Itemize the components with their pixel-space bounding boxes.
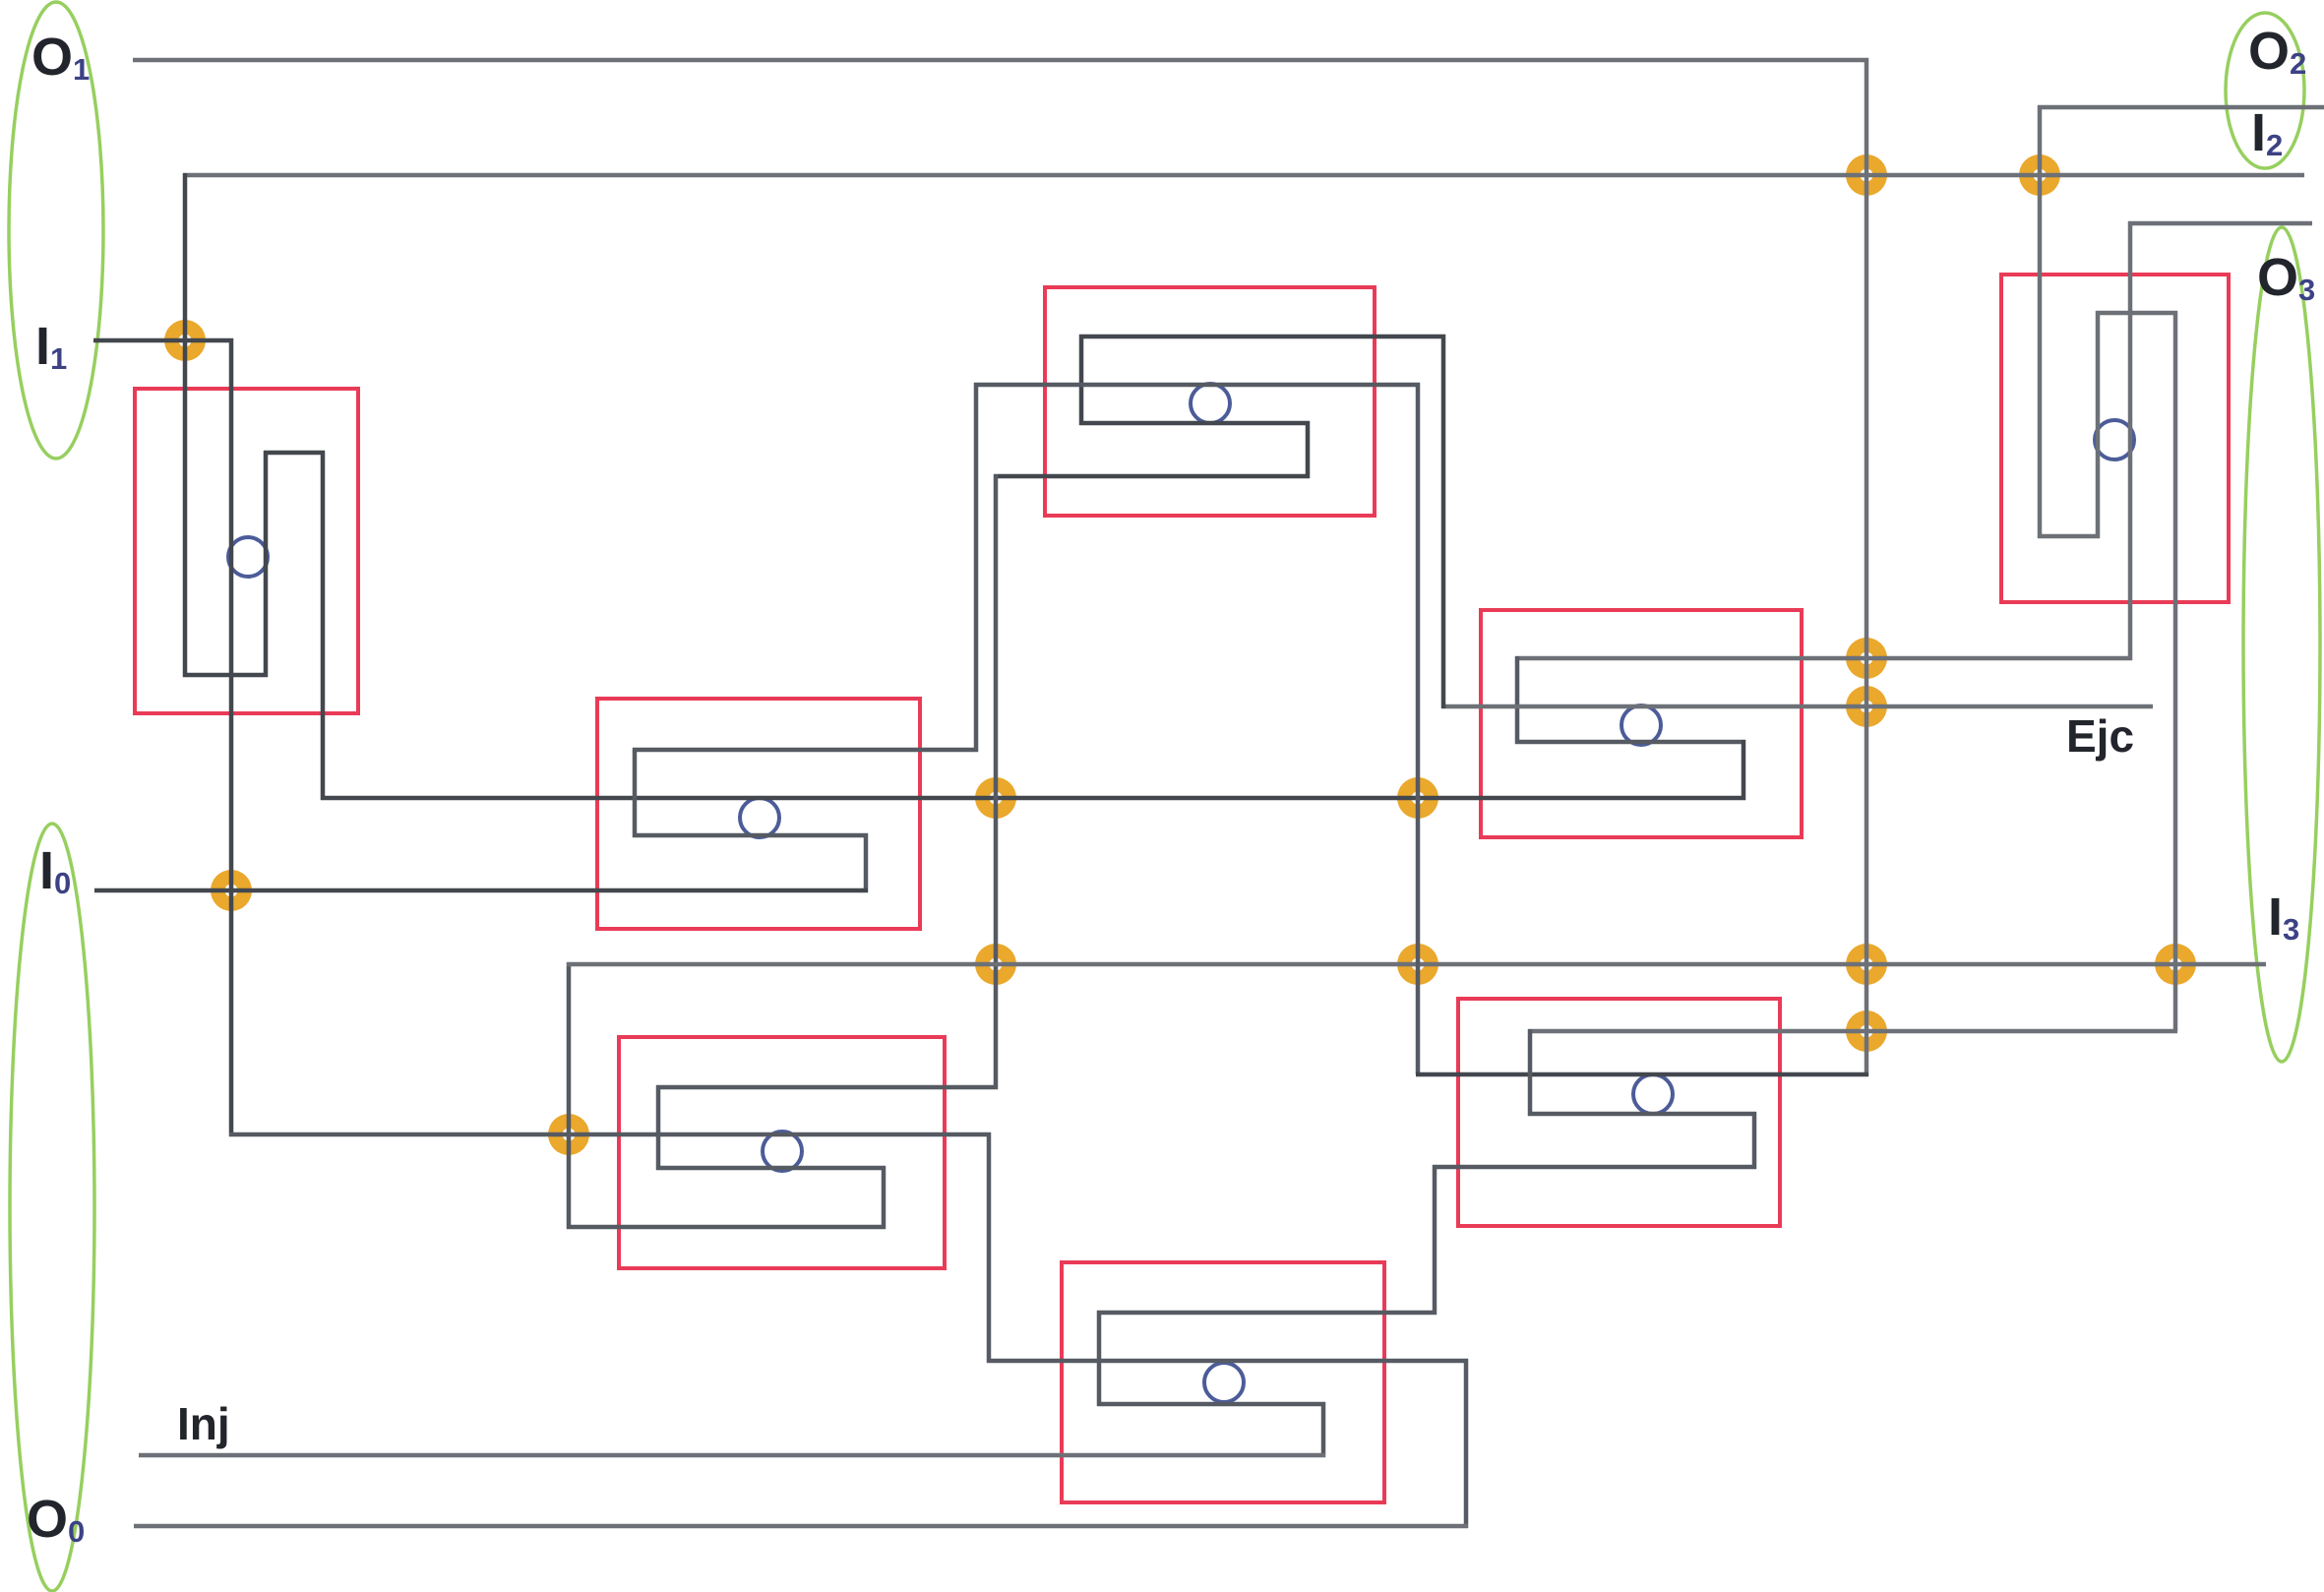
junction dot J8 (I3 line x1441)	[1397, 944, 1438, 985]
wire SW7 serpentine top y1048	[1528, 1029, 2177, 1034]
wire long vertical x1012	[994, 474, 999, 1089]
ring resonator SW6	[763, 1132, 802, 1171]
switch box SW6 (bottom left)	[619, 1037, 945, 1268]
wire SW6 serpentine top y1105	[656, 1085, 998, 1090]
ellipse group input/output port 1 (O1,I1)	[9, 2, 103, 459]
wire O2 horizontal	[2038, 105, 2324, 110]
ellipse group input/output port 3 (O3,I3)	[2243, 227, 2320, 1062]
switch box SW4 (middle right)	[1481, 610, 1802, 837]
wire SW8 serpentine right vertical x1345	[1321, 1402, 1326, 1457]
wire SW7 through line y1092	[1416, 1072, 1868, 1077]
wire SW6 serpentine bottom y1247	[567, 1225, 886, 1230]
wire I3 feeder vertical x578	[567, 962, 572, 1229]
wire O2 vertical drop x2073	[2038, 105, 2043, 538]
wire I2 vertical x188	[183, 173, 188, 677]
wire Inj horizontal y1479	[139, 1453, 1325, 1458]
wire SW2 serpentine top y342	[1079, 335, 1445, 339]
wire SW5 output vertical x2211	[2173, 311, 2178, 1031]
wire SW3 serpentine top y762	[633, 748, 978, 753]
wire O3 vertical x2165 through SW5	[2128, 221, 2133, 660]
wire SW7 serpentine middle y1132	[1528, 1112, 1756, 1117]
wire SW7 serpentine left vertical x1555	[1528, 1029, 1533, 1116]
wire O1 vertical drop x1897	[1865, 58, 1869, 1076]
ring resonator SW4	[1621, 705, 1661, 745]
junction dot J1 (I2 x O1-vertical)	[1846, 154, 1887, 196]
wire I1 horizontal y346	[93, 338, 233, 343]
switch box SW3 (middle left)	[597, 699, 920, 929]
wire SW2 serpentine middle y430	[1079, 421, 1310, 426]
junction dot J2 (I2 x O2-vertical)	[2019, 154, 2060, 196]
wire SW8 serpentine middle y1427	[1097, 1402, 1325, 1407]
svg-text:Inj: Inj	[177, 1398, 230, 1449]
wire SW2 serpentine left vertical x1099	[1079, 335, 1084, 425]
wire SW3 serpentine left vertical x645	[633, 748, 638, 837]
wire vertical x1005	[987, 1133, 992, 1363]
wire SW2 serpentine bottom y484	[994, 474, 1310, 479]
wire I3 horizontal y980	[567, 962, 2266, 967]
wire SW4 serpentine right vertical x1772	[1742, 740, 1746, 800]
wire vertical x1441	[1416, 383, 1421, 1074]
switch box SW1 (left vertical)	[135, 389, 358, 713]
wire SW2 through line y391	[974, 383, 1420, 388]
wire O3 horizontal	[2128, 221, 2312, 226]
wire I2 horizontal	[183, 173, 2304, 178]
junction dot J5 (mid line x1012)	[975, 777, 1016, 819]
wire O0 vertical x1490	[1464, 1359, 1469, 1528]
switch box SW7 (bottom right)	[1458, 999, 1780, 1226]
wire O0 horizontal y1551	[134, 1524, 1468, 1529]
wire I0 horizontal y905	[94, 888, 868, 893]
wire SW4 serpentine middle y754	[1515, 740, 1745, 745]
wire SW6 serpentine left vertical x669	[656, 1085, 661, 1170]
ring resonator SW1	[228, 537, 268, 577]
wire SW8 through line y1383	[987, 1359, 1468, 1364]
junction dot J7 (I3 line x1012)	[975, 944, 1016, 985]
junction dot J12 (I3 x O2-serpentine vertical)	[2155, 944, 2196, 985]
ring resonator SW8	[1204, 1363, 1244, 1402]
junction dot J13 (SW7 serpentine x O1-vertical)	[1846, 1010, 1887, 1052]
wire SW6 serpentine middle y1187	[656, 1166, 886, 1171]
wire SW1 serpentine top y460	[264, 451, 325, 456]
junction dot J3 (I1 x SW1 serpentine)	[164, 320, 206, 361]
wire O1 horizontal	[133, 58, 1868, 63]
switch box SW2 (top middle)	[1045, 287, 1375, 516]
wire Ejc horizontal y718	[1441, 704, 2153, 709]
junction dot J10 (Ejc x O1-vertical)	[1846, 686, 1887, 727]
wire SW8 serpentine top y1334	[1097, 1311, 1437, 1316]
wire SW5 serpentine inner vertical	[2096, 311, 2101, 538]
wire SW1 output vertical x328	[321, 451, 326, 800]
junction dot J6 (mid line x1441)	[1397, 777, 1438, 819]
wire SW1 serpentine bottom y686	[183, 673, 268, 678]
wire SW1 serpentine inner vertical x270	[264, 451, 269, 677]
svg-text:Ejc: Ejc	[2066, 710, 2134, 762]
wire vertical x992	[974, 383, 979, 752]
wire SW8 serpentine left vertical x1117	[1097, 1311, 1102, 1406]
wire SW7 serpentine bottom y1186	[1433, 1165, 1756, 1170]
ring resonator SW7	[1633, 1074, 1673, 1114]
wire SW3 serpentine middle y849	[633, 833, 868, 838]
wire SW5 serpentine bottom	[2038, 534, 2100, 539]
wire SW6 serpentine right vertical x898	[882, 1166, 887, 1229]
switch box SW5 (top right vertical)	[2001, 275, 2229, 602]
ellipse group input/output port 2 (O2,I2)	[2226, 13, 2304, 168]
wire SW7 serpentine right vertical x1783	[1752, 1112, 1757, 1169]
wire lower horizontal y1153	[229, 1133, 991, 1137]
wire vertical x1458	[1433, 1165, 1437, 1315]
junction dot J9 (SW4 serpentine x O1-vertical)	[1846, 638, 1887, 679]
junction dot J14 (I1-lower line x I3-vertical)	[548, 1114, 589, 1155]
wire Ejc vertical x1467	[1441, 335, 1446, 708]
wire I1 vertical x235	[229, 338, 234, 1136]
switch box SW8 (bottom middle)	[1062, 1262, 1384, 1502]
wire SW2 serpentine right vertical x1329	[1306, 421, 1311, 478]
wire SW4 serpentine left vertical x1542	[1515, 656, 1520, 744]
junction dot J4 (I0 x I1-vertical)	[211, 870, 252, 911]
ellipse group input/output port 0 (I0,O0)	[10, 824, 94, 1591]
ring resonator SW5	[2095, 420, 2134, 459]
wire SW4 serpentine top y669	[1515, 656, 2132, 661]
ring resonator SW3	[740, 798, 779, 837]
junction dot J11 (I3 x O1-vertical)	[1846, 944, 1887, 985]
wire long middle line y811	[321, 796, 1745, 801]
ring resonator SW2	[1191, 384, 1230, 423]
wire SW5 serpentine top	[2096, 311, 2177, 316]
wire SW3 serpentine right vertical x880	[864, 833, 869, 892]
